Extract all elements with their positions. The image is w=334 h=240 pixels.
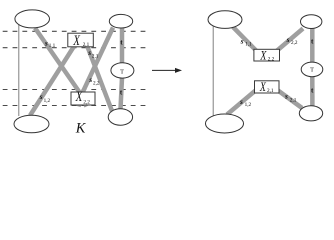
svg-text:2,2: 2,2 xyxy=(268,57,275,63)
wire: edge s_{1,1} right (top-left blob to box X_{2,2}) xyxy=(233,27,257,52)
wire: edge s_{2,1} (box X_{2,1} to bottom-right blob) xyxy=(87,46,112,112)
node T right xyxy=(301,62,323,77)
node: bottom-left blob right xyxy=(206,114,244,133)
node: bottom-left blob xyxy=(14,115,49,133)
svg-text:s: s xyxy=(44,38,48,47)
svg-text:X: X xyxy=(75,89,84,105)
node: top-right blob right xyxy=(301,15,322,29)
node: top-left blob xyxy=(15,10,50,28)
dashed level line 2 xyxy=(3,47,150,49)
svg-text:1,1: 1,1 xyxy=(245,41,252,47)
wire: edge t lower right xyxy=(310,77,315,107)
wire: thin left boundary line of K xyxy=(18,23,20,116)
dashed level line 1 xyxy=(3,30,150,32)
svg-text:s: s xyxy=(240,36,244,45)
svg-text:X: X xyxy=(260,49,268,62)
node: bottom-right blob right xyxy=(299,106,322,121)
svg-text:s: s xyxy=(88,75,92,84)
svg-text:X: X xyxy=(259,81,267,94)
svg-text:s: s xyxy=(284,92,288,101)
box X_{2,2} left xyxy=(71,92,95,105)
svg-text:s: s xyxy=(87,48,91,57)
svg-text:2,1: 2,1 xyxy=(83,42,90,48)
wire: edge s_{1,2} (box X_{2,1} to bottom-left blob) xyxy=(30,46,75,116)
node T xyxy=(111,63,134,78)
wire: edge s_{2,1} right (box X_{2,1} to bottom-right blob) xyxy=(278,91,302,109)
arrow xyxy=(152,69,177,71)
svg-text:2,2: 2,2 xyxy=(291,40,298,46)
svg-text:s: s xyxy=(39,92,43,101)
svg-text:2,1: 2,1 xyxy=(267,88,274,94)
wire: edge s_{1,2} right (box X_{2,1} to bottom-left blob) xyxy=(227,91,256,115)
svg-text:2,1: 2,1 xyxy=(92,53,99,59)
box X_{2,1} left xyxy=(68,33,94,47)
wire: thin left boundary line right diagram xyxy=(212,26,214,116)
svg-text:X: X xyxy=(72,33,81,49)
svg-text:T: T xyxy=(120,68,124,75)
svg-text:1,2: 1,2 xyxy=(245,102,252,108)
svg-text:2,2: 2,2 xyxy=(93,80,100,86)
wire: edge t lower (T to bottom-right blob) xyxy=(121,78,123,109)
wire: edge s_{2,2} (top-right blob to box X_{2,2}) xyxy=(79,28,114,107)
node: bottom-right blob xyxy=(108,109,132,125)
wire: edge s_{2,2} right (box X_{2,2} to top-right blob) xyxy=(276,29,303,52)
svg-text:2,1: 2,1 xyxy=(290,98,297,104)
box X_{2,2} right xyxy=(254,49,280,61)
svg-text:1,1: 1,1 xyxy=(49,43,56,49)
node: top-left blob right xyxy=(208,11,242,29)
svg-text:T: T xyxy=(310,67,314,74)
svg-text:K: K xyxy=(75,120,87,136)
svg-text:s: s xyxy=(239,97,243,106)
wire: edge s_{1,1} (top-left blob to box X_{2,2}) xyxy=(35,28,87,107)
node: top-right blob xyxy=(109,14,132,28)
svg-text:1,2: 1,2 xyxy=(44,98,51,104)
wire: edge t upper right xyxy=(310,28,315,63)
wire: edge t upper (top-right blob to T) xyxy=(120,28,125,64)
svg-text:s: s xyxy=(286,35,290,44)
dashed level line 3 xyxy=(3,89,150,91)
dashed level line 4 xyxy=(3,105,150,107)
box X_{2,1} right xyxy=(255,81,280,93)
svg-text:2,2: 2,2 xyxy=(83,99,90,105)
